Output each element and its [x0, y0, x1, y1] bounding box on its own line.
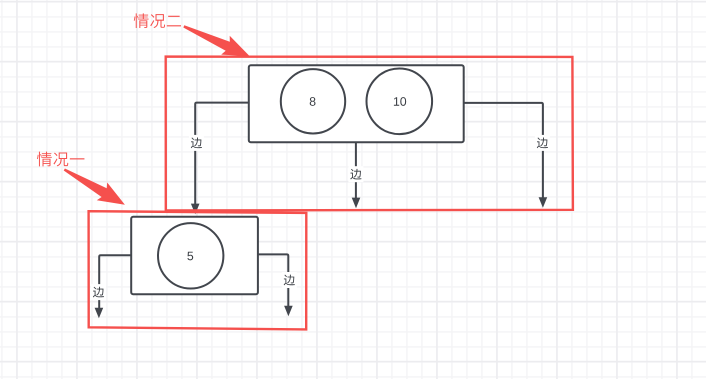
- circle 10: [367, 69, 433, 135]
- wire left edge of top node: [195, 103, 249, 205]
- edge label 边: [189, 135, 204, 151]
- annotation box case 2: [166, 57, 573, 211]
- value 5: [187, 252, 193, 261]
- wire right edge of bottom node: [258, 254, 288, 306]
- node rectangle (5): [131, 217, 258, 294]
- annotation title 情况二: [134, 13, 149, 28]
- arrowhead top-right edge: [539, 197, 548, 208]
- edge label 边: [282, 272, 297, 288]
- arrowhead top-left edge: [191, 204, 200, 215]
- node rectangle (8,10): [249, 65, 464, 142]
- annotation arrow to case 2 box: [183, 25, 249, 56]
- edge label 边: [535, 135, 550, 151]
- edge label 边: [348, 166, 363, 182]
- wire right edge of top node: [464, 103, 543, 198]
- arrowhead bottom-right edge: [284, 306, 293, 317]
- arrowhead top-center edge: [352, 198, 361, 209]
- circle 8: [281, 69, 345, 133]
- value 10: [394, 97, 399, 105]
- arrowhead bottom-left edge: [95, 308, 104, 319]
- wire left edge of bottom node: [99, 255, 131, 308]
- wire center edge of top node: [355, 142, 357, 198]
- annotation arrow to case 1 box: [64, 169, 125, 205]
- value 8: [310, 97, 316, 106]
- circle 5: [158, 223, 223, 288]
- annotation box case 1: [89, 211, 307, 329]
- annotation title 情况一: [37, 152, 52, 167]
- edge label 边: [91, 284, 106, 300]
